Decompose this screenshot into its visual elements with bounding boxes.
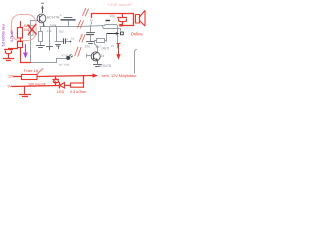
wire up to rail bbox=[83, 76, 85, 83]
ground G1 bbox=[37, 46, 45, 48]
LED rays bbox=[54, 79, 58, 83]
capacitor C4 bars bbox=[64, 39, 66, 44]
svg-text:1n: 1n bbox=[90, 18, 94, 22]
wire T2 base bbox=[87, 55, 92, 57]
box outline right bbox=[105, 25, 118, 49]
wire branch left bbox=[9, 48, 18, 50]
ground G4 bbox=[94, 65, 102, 67]
svg-text:1k: 1k bbox=[101, 54, 105, 58]
annotation circle pink bbox=[12, 15, 37, 41]
resistor Rr1 bbox=[18, 28, 23, 39]
wire top bbox=[20, 22, 22, 28]
svg-text:1uF: 1uF bbox=[50, 23, 55, 27]
svg-text:5,6 kOhm neu: 5,6 kOhm neu bbox=[2, 24, 6, 46]
transistor T2 bbox=[91, 52, 100, 61]
red cut marks bbox=[37, 8, 89, 74]
label AVO 10k bbox=[24, 24, 31, 32]
wire y41 horizontal bbox=[55, 41, 71, 43]
svg-text:12V: 12V bbox=[8, 75, 15, 79]
pencil schematic (light gray) bbox=[29, 3, 137, 73]
wire emitter T1 down bbox=[43, 23, 45, 27]
speaker LS1 bbox=[136, 11, 146, 27]
wire inner y28 bbox=[102, 26, 121, 31]
wire C-red bottom bbox=[122, 22, 124, 26]
wire arrow out bbox=[107, 33, 117, 35]
svg-text:47k: 47k bbox=[47, 29, 52, 33]
svg-text:+100 microF: +100 microF bbox=[108, 2, 133, 7]
magenta arrow bbox=[24, 44, 27, 57]
wire x106.5 down bbox=[106, 34, 108, 42]
svg-text:10: 10 bbox=[71, 37, 75, 41]
svg-text:47uF: 47uF bbox=[62, 54, 69, 58]
svg-text:(4k7): (4k7) bbox=[102, 46, 110, 50]
ground G3 bbox=[87, 42, 95, 44]
wire 1n stub bbox=[91, 22, 93, 25]
jack connector blob bbox=[67, 54, 73, 59]
wire C1 bottom bbox=[68, 21, 70, 27]
svg-text:verh. 12V Molybdaur: verh. 12V Molybdaur bbox=[102, 74, 138, 78]
wire x56 down bbox=[56, 27, 58, 42]
svg-text:10k: 10k bbox=[24, 28, 30, 32]
resistor Rr2 bbox=[18, 42, 23, 48]
fuse F1 bbox=[22, 75, 38, 80]
black dash bbox=[106, 20, 111, 22]
wire input vertical bbox=[30, 21, 32, 63]
wire mid rail bbox=[40, 26, 105, 27]
bottom power circuit red bbox=[12, 75, 93, 97]
capacitor C-red3 bbox=[55, 76, 57, 79]
capacitor C-red2 bbox=[8, 48, 10, 51]
capacitor C-red plates bbox=[118, 17, 127, 19]
ground Gr1 bbox=[4, 59, 14, 61]
svg-text:0.3 kOhm: 0.3 kOhm bbox=[70, 90, 86, 94]
ground Gr2 bbox=[20, 87, 31, 97]
resistor R2 horizontal bbox=[97, 39, 105, 43]
cut mark s3 bbox=[79, 34, 85, 42]
wire bottom L bbox=[21, 48, 31, 63]
svg-text:9V: 9V bbox=[8, 84, 13, 88]
svg-text:+: + bbox=[66, 37, 68, 41]
contact square bbox=[121, 32, 124, 35]
junction blob red bbox=[119, 24, 122, 27]
svg-text:BC547B: BC547B bbox=[47, 16, 60, 20]
wire red top rail bbox=[92, 14, 134, 26]
svg-text:am Vstk.: am Vstk. bbox=[59, 63, 70, 67]
wire base input horizontal bbox=[31, 20, 38, 22]
wire x49 down bbox=[49, 27, 51, 47]
red labels bottom bbox=[8, 69, 138, 94]
tick rail bbox=[45, 25, 56, 27]
wire R1 bottom bbox=[40, 42, 42, 46]
red X cross bbox=[28, 24, 37, 35]
red replacement resistor chain bbox=[4, 22, 31, 63]
pencil text labels bbox=[45, 12, 116, 67]
svg-text:LED: LED bbox=[57, 90, 65, 94]
svg-text:4k7: 4k7 bbox=[96, 45, 102, 49]
capacitor C2 bbox=[90, 25, 92, 31]
magenta annotations bbox=[2, 24, 15, 46]
red down arrow annotation bbox=[117, 44, 121, 59]
svg-text:1k: 1k bbox=[111, 44, 115, 48]
resistor R1 vertical bbox=[39, 32, 43, 42]
cut mark s4 bbox=[75, 47, 81, 56]
ground G5 bbox=[56, 45, 61, 49]
stroke diag fuse arrow bbox=[37, 69, 44, 75]
wire R2 left to T2 bbox=[95, 41, 98, 53]
transistor T1 bbox=[37, 14, 46, 23]
svg-text:Fuse 1A: Fuse 1A bbox=[24, 69, 39, 73]
cut mark s2 bbox=[78, 20, 84, 28]
wire R2 right bbox=[105, 40, 107, 42]
svg-text:100 microF: 100 microF bbox=[28, 82, 47, 86]
svg-text:10u: 10u bbox=[85, 45, 91, 49]
LED D1 bbox=[59, 83, 61, 89]
wire J right bbox=[135, 50, 137, 74]
wire mic line bbox=[31, 59, 67, 63]
wire supply arrow stem bbox=[42, 8, 44, 13]
resistor R-red bbox=[71, 83, 84, 87]
wire T2 emitter down bbox=[97, 61, 99, 64]
junction dot bbox=[70, 41, 72, 43]
resistor R-old (crossed out) bbox=[29, 26, 33, 36]
ground G2 bbox=[47, 47, 53, 51]
svg-text:10u: 10u bbox=[110, 14, 116, 18]
arrow connector black bbox=[116, 32, 120, 35]
capacitor C1 plates bbox=[64, 17, 72, 19]
svg-text:4,7k alt: 4,7k alt bbox=[10, 30, 14, 42]
big arrow head bbox=[93, 73, 99, 77]
wire mid bbox=[20, 38, 22, 42]
wire 12V in bbox=[14, 76, 22, 78]
svg-text:BC547B: BC547B bbox=[98, 64, 111, 68]
svg-text:2k2: 2k2 bbox=[59, 30, 64, 34]
wire R1 top bbox=[40, 27, 42, 32]
wire 9V bbox=[12, 86, 60, 87]
cut mark s1 bbox=[83, 8, 89, 16]
capacitor C-red top stub bbox=[122, 14, 124, 17]
supply arrow head bbox=[41, 5, 44, 8]
wire rail 12V bbox=[37, 76, 93, 77]
svg-text:Online: Online bbox=[131, 32, 144, 37]
